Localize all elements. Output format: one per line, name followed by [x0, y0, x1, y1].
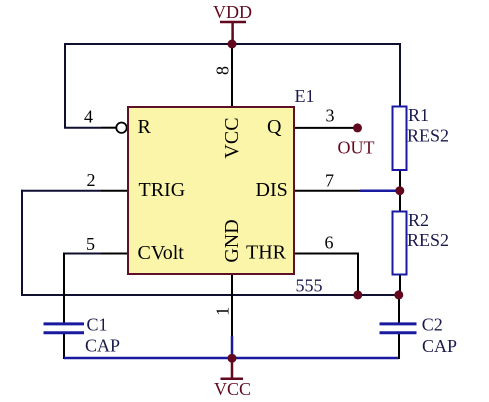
power VDD symbol	[213, 2, 252, 44]
node VDD junction	[228, 40, 237, 49]
svg-text:8: 8	[213, 66, 233, 75]
svg-text:4: 4	[84, 107, 93, 127]
power VCC symbol	[214, 358, 251, 399]
svg-text:THR: THR	[246, 242, 287, 264]
node VCC junction	[228, 354, 237, 363]
resistor R2	[393, 210, 450, 275]
wire pin7 blue segment	[360, 189, 397, 192]
pin 1 stub	[231, 274, 233, 336]
svg-text:R2: R2	[408, 210, 429, 230]
svg-text:VDD: VDD	[213, 2, 252, 22]
svg-text:TRIG: TRIG	[139, 179, 186, 201]
svg-text:RES2: RES2	[407, 230, 449, 250]
wire R1 bottom lead	[399, 170, 401, 188]
svg-text:2: 2	[87, 170, 96, 190]
wire C1 bottom stem	[63, 334, 65, 359]
pin 7 stub	[294, 190, 360, 192]
svg-text:R1: R1	[408, 105, 429, 125]
wire pin5 to C1 vertical	[63, 253, 65, 323]
wire pin2 horizontal	[21, 190, 101, 192]
svg-text:CVolt: CVolt	[138, 242, 185, 264]
resistor R1	[393, 105, 450, 170]
pin 4 stub	[101, 127, 116, 129]
svg-text:CAP: CAP	[85, 336, 120, 356]
wire top rail VDD net	[64, 43, 401, 45]
svg-text:5: 5	[86, 234, 95, 254]
wire pin4 horizontal	[64, 127, 101, 129]
svg-text:6: 6	[325, 233, 334, 253]
wire C2 top stem	[398, 297, 400, 323]
wire R2 top lead	[399, 193, 401, 212]
op-amp U1 555 timer body	[128, 107, 294, 274]
node R1-R2-DIS junction	[395, 186, 404, 195]
node THR junction	[353, 290, 362, 299]
capacitor C1	[44, 315, 121, 356]
wire pin5 horizontal	[64, 253, 101, 255]
svg-text:VCC: VCC	[214, 379, 251, 399]
node OUT endpoint	[353, 123, 362, 132]
node R2-C2 junction	[394, 290, 403, 299]
svg-text:CAP: CAP	[422, 336, 457, 356]
wire left feedback vertical	[64, 43, 66, 129]
wire R2 bottom lead	[399, 274, 401, 292]
wire pin6 vertical	[357, 253, 359, 293]
svg-text:R: R	[138, 116, 152, 138]
pin 3 stub	[294, 127, 355, 129]
svg-text:E1: E1	[295, 86, 315, 106]
pin 2 stub	[101, 190, 128, 192]
svg-text:3: 3	[326, 106, 335, 126]
svg-text:C2: C2	[422, 315, 443, 335]
svg-text:GND: GND	[221, 219, 243, 262]
pin 8 stub	[231, 44, 233, 107]
pin 5 stub	[101, 253, 128, 255]
svg-text:555: 555	[296, 276, 323, 296]
pin 4 inversion bubble	[116, 123, 126, 133]
svg-text:RES2: RES2	[407, 126, 449, 146]
wire middle rail THR net	[21, 294, 399, 296]
svg-text:1: 1	[213, 307, 233, 316]
svg-text:OUT: OUT	[338, 138, 375, 158]
wire right vertical to R1	[399, 43, 401, 107]
svg-text:Q: Q	[267, 116, 282, 138]
wire pin1 lower segment	[231, 336, 234, 358]
svg-text:C1: C1	[87, 315, 108, 335]
capacitor C2	[380, 315, 458, 357]
wire C2 bottom stem	[398, 334, 400, 359]
pin 6 stub	[294, 253, 358, 255]
wire left vertical TRIG net	[21, 190, 23, 296]
svg-text:DIS: DIS	[256, 179, 288, 201]
svg-text:7: 7	[325, 171, 334, 191]
svg-text:VCC: VCC	[221, 117, 243, 158]
wire bottom rail VCC net	[64, 357, 399, 360]
